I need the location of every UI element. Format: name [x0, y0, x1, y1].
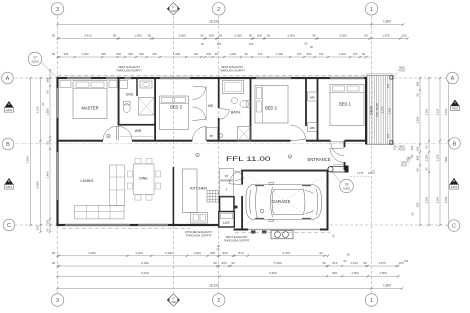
pillow bed1 a [333, 86, 345, 91]
svg-text:BED 2: BED 2 [265, 106, 278, 111]
section marker A/A401 right [451, 100, 460, 107]
grid bubble A right [447, 72, 459, 84]
bed bed1 [330, 85, 364, 126]
wall lobby x=219 [219, 196, 221, 212]
svg-text:1,410: 1,410 [350, 261, 358, 265]
pillow bed1 b [347, 86, 359, 91]
pillow bed2 b [257, 101, 262, 112]
deck post bottom [390, 141, 393, 144]
svg-text:90: 90 [52, 251, 56, 255]
pillow master a [76, 82, 89, 88]
svg-text:A401: A401 [6, 185, 13, 189]
section marker A/A401 left [5, 101, 14, 108]
svg-text:18,320: 18,320 [209, 284, 219, 288]
bedside master r [109, 81, 117, 88]
kitchen island bench [183, 169, 198, 213]
svg-text:90: 90 [148, 34, 152, 38]
wall bath west grid2 [218, 78, 220, 108]
svg-text:FFL 11.00: FFL 11.00 [226, 157, 272, 163]
wall grid B (bedroom strip south) [58, 140, 104, 142]
svg-text:1,900: 1,900 [134, 34, 142, 38]
dim col right d [448, 78, 450, 225]
svg-text:700: 700 [297, 52, 302, 56]
svg-text:MASTER: MASTER [81, 106, 98, 111]
svg-text:B: B [453, 141, 457, 147]
svg-text:1,200: 1,200 [193, 251, 201, 255]
grid line C right [330, 224, 448, 226]
svg-text:90: 90 [415, 93, 419, 96]
pillow bed3 a [162, 98, 173, 103]
svg-text:2,400: 2,400 [45, 171, 49, 178]
svg-text:90: 90 [200, 34, 204, 38]
grid line B [15, 143, 448, 145]
svg-text:2,000: 2,000 [234, 34, 242, 38]
svg-text:LDY: LDY [223, 221, 230, 225]
svg-text:A: A [454, 101, 456, 105]
dim col right c [439, 78, 441, 225]
wall master east [118, 78, 120, 125]
svg-text:WD: WD [310, 126, 316, 130]
svg-text:2: 2 [217, 7, 220, 13]
dim row bottom second [58, 265, 399, 267]
svg-text:C: C [7, 223, 11, 229]
grid bubble B left [2, 138, 14, 150]
svg-text:660: 660 [45, 77, 49, 82]
svg-text:3,000: 3,000 [435, 196, 439, 203]
basin bath [232, 98, 238, 104]
bathtub inner [225, 83, 242, 92]
svg-text:THROUGH SOFFIT: THROUGH SOFFIT [224, 239, 250, 243]
garage dashed diagonals [246, 174, 322, 226]
dim row bottom overall [58, 288, 403, 290]
svg-text:90: 90 [45, 141, 49, 144]
svg-text:90: 90 [45, 228, 49, 231]
svg-text:700: 700 [353, 52, 358, 56]
svg-text:4,000: 4,000 [36, 181, 40, 189]
svg-text:1,800: 1,800 [379, 271, 387, 275]
dim row bottom third [58, 275, 399, 277]
svg-text:90: 90 [319, 251, 323, 255]
svg-text:650: 650 [116, 52, 121, 56]
grid bubble 3 top [51, 3, 64, 16]
svg-text:125: 125 [393, 145, 397, 150]
deck top beam line [366, 73, 393, 75]
construction dashed entry [350, 175, 372, 177]
wall ens/shower divider x=137 [136, 78, 137, 96]
dine chair side [155, 171, 160, 177]
dim row bottom first [58, 255, 329, 257]
svg-text:1,955: 1,955 [415, 116, 419, 123]
svg-text:905: 905 [64, 52, 69, 56]
wall bath east x=250.5 [250, 78, 252, 141]
grid line 2 [218, 16, 220, 293]
svg-text:A: A [6, 76, 10, 82]
bed master [73, 81, 107, 119]
windows top wall [67, 77, 91, 79]
wd closet b [308, 123, 318, 132]
svg-text:POST: POST [401, 165, 408, 168]
svg-text:BED 1: BED 1 [339, 102, 352, 107]
svg-text:A403: A403 [451, 185, 458, 189]
svg-text:THROUGH SOFFIT: THROUGH SOFFIT [219, 68, 245, 72]
svg-text:DINE: DINE [139, 177, 148, 181]
svg-text:1,800: 1,800 [383, 20, 391, 24]
deck post top [390, 76, 393, 79]
svg-text:A: A [451, 76, 455, 82]
svg-text:DECK: DECK [369, 105, 373, 115]
bed bed2 [255, 86, 288, 124]
toilet ens [123, 103, 130, 112]
bedside master l [60, 81, 71, 88]
wall ens/bed3 x=155 [154, 78, 156, 141]
svg-text:2,500: 2,500 [424, 196, 428, 203]
svg-text:90: 90 [52, 261, 56, 265]
dine chair side [155, 183, 160, 189]
grid bubble 2 bottom [212, 294, 225, 307]
svg-text:ENS.: ENS. [126, 93, 134, 97]
wall garage east [327, 170, 329, 231]
smoke detector a [196, 153, 200, 157]
svg-text:BATH.: BATH. [231, 111, 241, 115]
grid bubble C right [448, 220, 460, 232]
dim col left mid [40, 78, 42, 232]
dine chair side [127, 171, 132, 177]
svg-text:90: 90 [267, 34, 271, 38]
soffit dashed below garage [235, 232, 330, 234]
svg-text:600: 600 [209, 34, 214, 38]
dim row top third [58, 56, 371, 58]
svg-text:90: 90 [215, 52, 219, 56]
svg-text:90: 90 [45, 90, 49, 93]
wd door bed3 b [193, 107, 206, 119]
svg-text:LIVING: LIVING [80, 178, 93, 183]
dim row top second [58, 38, 408, 40]
car wheels [255, 186, 311, 219]
section marker B/A403 right [450, 178, 459, 185]
svg-text:POST: POST [398, 148, 405, 152]
grid bubble B right [449, 138, 461, 150]
deck outline [367, 76, 394, 145]
garage door panel [271, 230, 293, 239]
svg-text:810: 810 [332, 261, 337, 265]
wd door bed3 a [193, 87, 206, 99]
svg-text:A403: A403 [170, 300, 177, 304]
kitchen sink unit [191, 213, 208, 224]
door entry front [330, 149, 343, 163]
kitchen tiled square [207, 191, 219, 203]
svg-text:125: 125 [371, 169, 375, 174]
wall garage west x=242 [241, 171, 243, 185]
grid bubble 1 bottom [365, 294, 378, 307]
svg-text:90: 90 [322, 261, 326, 265]
svg-text:905: 905 [101, 52, 106, 56]
toilet bath [240, 101, 249, 108]
svg-text:1,600: 1,600 [82, 52, 89, 56]
wall bed2 east x=306 [305, 78, 307, 126]
dim col left inner [49, 70, 51, 232]
wall wir north y=124.7 [118, 124, 156, 126]
svg-text:400: 400 [249, 42, 254, 46]
leader 18/A505 [333, 173, 341, 183]
wall bottom living (grid C) [56, 224, 219, 226]
grid bubble 2 top [212, 3, 225, 16]
svg-text:ENTRANCE: ENTRANCE [307, 157, 330, 162]
wd closet front line [206, 86, 208, 121]
smoke detector b [107, 134, 111, 138]
car body [246, 183, 321, 222]
dine chair [146, 195, 152, 200]
svg-text:3,050: 3,050 [388, 107, 392, 114]
svg-text:600: 600 [210, 251, 215, 255]
svg-text:3,300: 3,300 [444, 108, 448, 115]
grid marker C/A403 top [167, 3, 179, 15]
svg-text:1,500: 1,500 [351, 271, 359, 275]
svg-text:3,000: 3,000 [287, 34, 295, 38]
dim col right b [428, 78, 430, 225]
door bed3 [192, 127, 206, 141]
svg-text:1: 1 [370, 7, 373, 13]
grid bubble 3 bottom [51, 294, 64, 307]
svg-text:B: B [6, 142, 10, 148]
svg-text:90: 90 [231, 261, 235, 265]
svg-text:A505: A505 [31, 59, 39, 63]
grid line 3 [57, 16, 59, 293]
svg-text:1,675: 1,675 [378, 261, 386, 265]
grid line A [15, 77, 56, 79]
svg-text:3,090: 3,090 [444, 196, 448, 203]
svg-text:WIR: WIR [135, 129, 142, 133]
svg-text:700: 700 [194, 52, 199, 56]
svg-text:B: B [453, 179, 455, 183]
svg-text:7,680: 7,680 [444, 156, 448, 163]
dim col right a [419, 78, 421, 225]
dim col left outer [30, 78, 32, 225]
svg-text:90: 90 [52, 34, 56, 38]
dine chair [135, 195, 141, 200]
smoke detector e2 [288, 155, 292, 159]
svg-text:125: 125 [404, 259, 409, 263]
svg-text:90: 90 [113, 34, 117, 38]
svg-text:9,340: 9,340 [141, 261, 149, 265]
svg-text:3,000: 3,000 [339, 34, 347, 38]
svg-text:BT: BT [210, 134, 214, 138]
smoke detector d [260, 209, 264, 213]
pillow bed2 a [257, 88, 262, 99]
svg-text:600: 600 [206, 52, 211, 56]
section marker B/A401 left [5, 178, 14, 185]
svg-text:BED 3: BED 3 [170, 105, 183, 110]
svg-text:125: 125 [401, 34, 406, 38]
svg-text:800: 800 [222, 251, 227, 255]
grid line C row [15, 224, 56, 226]
svg-text:3,410: 3,410 [84, 34, 92, 38]
svg-text:1,200: 1,200 [424, 154, 428, 161]
svg-text:3: 3 [56, 298, 59, 304]
svg-text:600: 600 [128, 52, 133, 56]
svg-text:3,120: 3,120 [435, 108, 439, 115]
kitchen bench right [220, 181, 234, 196]
pillow bed3 b [175, 98, 186, 103]
wall entry east x=344.5 [344, 141, 346, 148]
shower bath [238, 127, 251, 142]
dine chair side [127, 183, 132, 189]
door bath [220, 110, 229, 119]
svg-text:1,290: 1,290 [435, 154, 439, 161]
svg-text:6,490: 6,490 [269, 271, 277, 275]
wall garage south [234, 229, 329, 231]
svg-text:WD: WD [310, 95, 316, 99]
svg-text:WD: WD [208, 104, 214, 108]
svg-text:THROUGH SOFFIT: THROUGH SOFFIT [186, 234, 212, 238]
svg-text:A401: A401 [6, 108, 13, 112]
svg-text:90: 90 [52, 52, 56, 56]
svg-text:GARAGE: GARAGE [272, 199, 291, 204]
soffit dashed line top [58, 74, 367, 76]
svg-text:1,800: 1,800 [45, 108, 49, 115]
svg-text:90: 90 [219, 34, 223, 38]
garage door opening south [248, 229, 320, 231]
svg-text:90: 90 [245, 52, 249, 56]
svg-text:700: 700 [258, 52, 263, 56]
svg-text:810: 810 [238, 251, 243, 255]
bt closet [206, 128, 218, 140]
svg-text:A505: A505 [343, 186, 351, 190]
svg-text:2,000: 2,000 [424, 108, 428, 115]
service marks [251, 231, 256, 234]
soffit dashed line bottom [62, 227, 190, 229]
door entry closet [235, 171, 244, 178]
svg-text:1,675: 1,675 [382, 34, 390, 38]
svg-text:195: 195 [410, 145, 414, 150]
wall exterior left [56, 77, 58, 226]
svg-text:290: 290 [36, 225, 40, 230]
svg-text:A401: A401 [452, 107, 459, 111]
svg-text:1,200: 1,200 [229, 52, 236, 56]
wall wd east x=317.5 [317, 78, 319, 141]
svg-text:600: 600 [307, 52, 312, 56]
wall exterior right bed1/deck side [365, 77, 367, 144]
svg-text:90: 90 [415, 168, 419, 171]
svg-text:3,000: 3,000 [178, 34, 186, 38]
dim row top overall [58, 24, 404, 26]
svg-text:700: 700 [319, 52, 324, 56]
svg-text:400: 400 [217, 42, 222, 46]
svg-text:90: 90 [363, 261, 367, 265]
wir shelves [120, 136, 153, 138]
svg-text:650: 650 [139, 52, 144, 56]
sofa L-shape [110, 165, 125, 206]
svg-text:3,120: 3,120 [36, 106, 40, 114]
grid bubble 1 top [365, 3, 378, 16]
svg-text:1,600: 1,600 [173, 52, 180, 56]
leader bed post bottom [393, 144, 398, 149]
svg-text:POST: POST [398, 69, 405, 73]
svg-text:900: 900 [332, 271, 337, 275]
svg-text:2: 2 [217, 298, 220, 304]
double door master [103, 126, 132, 140]
svg-text:3,070: 3,070 [380, 106, 384, 113]
svg-text:700: 700 [152, 52, 157, 56]
svg-text:4,000: 4,000 [88, 251, 96, 255]
svg-text:600: 600 [221, 261, 226, 265]
ldy washer [221, 213, 233, 219]
svg-text:A: A [8, 102, 10, 106]
svg-text:1,600: 1,600 [339, 52, 346, 56]
dark dot [234, 205, 237, 208]
svg-text:ST: ST [225, 174, 229, 178]
svg-text:18,320: 18,320 [209, 20, 219, 24]
grid bubble C left [3, 219, 15, 231]
svg-text:250: 250 [415, 202, 419, 207]
svg-text:THROUGH SOFFIT: THROUGH SOFFIT [116, 68, 142, 72]
svg-text:90: 90 [362, 52, 366, 56]
dine chair [135, 158, 141, 163]
svg-text:FDL 10.90: FDL 10.90 [375, 103, 379, 117]
svg-text:B: B [8, 179, 10, 183]
shower ens [139, 98, 155, 116]
leader bed post top [393, 73, 398, 78]
svg-text:1,600: 1,600 [276, 52, 283, 56]
svg-text:1,375: 1,375 [357, 171, 364, 175]
svg-text:90: 90 [249, 34, 253, 38]
grid bubble A left [2, 72, 14, 84]
LDY box walls [219, 212, 235, 228]
leader 17/A505 [41, 62, 58, 78]
wall garage north y=170.5 [241, 170, 328, 172]
door bed1 [331, 142, 345, 156]
svg-text:125: 125 [386, 133, 390, 138]
svg-text:7,390: 7,390 [26, 156, 30, 164]
detail bubble 17/A505 [28, 52, 42, 66]
wall exterior top (grid A) [57, 77, 367, 79]
svg-text:3: 3 [56, 7, 59, 13]
entry canopy bar [328, 167, 347, 173]
kitchen tall cupboard [220, 169, 234, 181]
grid line 1 [371, 16, 373, 293]
dine chair [146, 158, 152, 163]
svg-text:C: C [452, 224, 456, 230]
detail bubble 18/A505 [340, 179, 354, 193]
grid line C(A403) [172, 16, 174, 293]
vanity ens2 [140, 81, 152, 88]
svg-text:KITCHEN: KITCHEN [190, 186, 207, 191]
basin ens [142, 82, 149, 86]
grid line A right [394, 77, 447, 79]
door garage internal [229, 171, 243, 184]
svg-text:90: 90 [312, 34, 316, 38]
wd closet a [308, 92, 318, 101]
door bed2 [291, 125, 306, 139]
svg-text:90: 90 [213, 261, 217, 265]
svg-text:4,700: 4,700 [282, 251, 290, 255]
svg-text:5,620: 5,620 [274, 261, 282, 265]
bathtub [223, 81, 244, 94]
svg-text:1: 1 [370, 298, 373, 304]
vanity ens [120, 81, 128, 89]
svg-text:200: 200 [45, 219, 49, 224]
svg-text:1,400: 1,400 [135, 251, 143, 255]
svg-text:1,800: 1,800 [383, 284, 391, 288]
smoke detector c [219, 134, 223, 138]
svg-text:850: 850 [415, 155, 419, 160]
pillow master b [91, 82, 104, 88]
svg-text:2,090: 2,090 [165, 251, 173, 255]
windows left wall [57, 88, 59, 118]
svg-text:90: 90 [364, 34, 368, 38]
dine table [134, 164, 155, 195]
svg-text:9,430: 9,430 [141, 271, 149, 275]
svg-text:A403: A403 [170, 9, 177, 13]
